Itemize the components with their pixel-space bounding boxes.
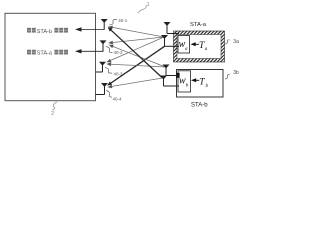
STA-b antenna 2 <box>160 76 179 87</box>
svg-text:STA-a: STA-a <box>37 51 53 57</box>
STA-b box <box>177 70 224 98</box>
STA-b antenna 1 <box>163 65 180 76</box>
arrow into text row 2 <box>80 50 103 52</box>
AP antenna 40-3 <box>96 62 107 72</box>
channel line Sa2 to AP4 (dark) <box>107 46 164 85</box>
40-2 leader <box>106 47 113 53</box>
channel line Sb1 to AP3 (light) <box>107 62 166 67</box>
channel line Sb2 to AP1 (dark) <box>108 27 163 78</box>
svg-text:T: T <box>199 78 205 88</box>
svg-text:40-4: 40-4 <box>113 96 123 101</box>
svg-text:3b: 3b <box>233 70 239 76</box>
svg-text:40-2: 40-2 <box>114 50 124 55</box>
40-4 leader <box>106 91 112 98</box>
arrow into text row 1 <box>80 28 104 30</box>
svg-text:2: 2 <box>51 111 54 117</box>
AP antenna 40-4 <box>96 83 109 95</box>
label 2 leader <box>52 102 57 110</box>
STA-a antenna 1 <box>164 22 180 34</box>
svg-text:STA-b: STA-b <box>37 29 52 35</box>
T_b with arrow to w_b <box>195 79 199 81</box>
AP box (access point) <box>5 13 96 100</box>
svg-text:40-1: 40-1 <box>118 18 128 23</box>
label 3a leader <box>225 40 230 44</box>
w_b box <box>178 71 191 92</box>
svg-text:3a: 3a <box>233 39 239 45</box>
channel line Sa2 to AP1 (light) <box>108 26 164 37</box>
AP antenna 40-2 <box>100 40 107 51</box>
svg-text:1: 1 <box>147 2 150 8</box>
text row 2: 来自STA-a的信号 <box>27 50 68 57</box>
channel line Sa2 to AP2 (light) <box>108 37 164 44</box>
STA-a box hatched border <box>174 31 225 62</box>
junction blob at w_b input <box>176 73 179 78</box>
40-1 leader <box>110 20 118 25</box>
channel line Sb1 to AP2 (light) <box>109 45 166 67</box>
w_a box <box>178 36 190 54</box>
40-3 leader <box>105 68 112 74</box>
svg-text:STA-a: STA-a <box>190 22 207 28</box>
text row 1: 来自STA-b的信号 (blobs for CJK) <box>27 28 68 35</box>
T_a with arrow to w_a <box>195 43 200 45</box>
AP antenna 40-1 <box>101 19 108 30</box>
svg-text:STA-b: STA-b <box>191 103 208 109</box>
channel line Sb2 to AP4 (light) <box>108 78 163 88</box>
label 1 leader (top) <box>138 5 146 13</box>
STA-a antenna 2 <box>161 35 179 46</box>
channel line Sa2 to AP3 (light) <box>107 37 165 62</box>
label 3b leader <box>225 75 230 79</box>
